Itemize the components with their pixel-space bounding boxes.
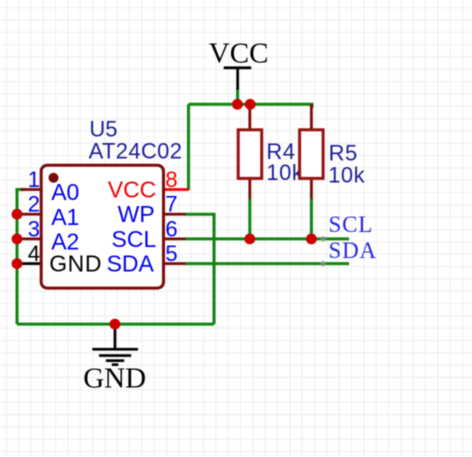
chip body	[41, 165, 163, 288]
R5 body	[300, 130, 324, 179]
pin 5 stub	[163, 262, 186, 265]
wire: SDA horizontal	[185, 262, 349, 265]
wire: R5 bottom green lead	[310, 199, 313, 239]
svg-text:AT24C02: AT24C02	[89, 138, 183, 163]
power port VCC	[209, 37, 269, 89]
wire: SCL horizontal	[185, 237, 349, 240]
R4 top lead	[248, 104, 251, 131]
svg-text:GND: GND	[49, 250, 102, 276]
wire: R4 bottom green lead	[248, 199, 251, 239]
svg-text:VCC: VCC	[209, 37, 269, 69]
svg-text:3: 3	[28, 216, 40, 241]
wire: VCC top rail horizontal	[189, 103, 313, 106]
wire: left vertical bus from pin1 down to GND rail	[16, 190, 19, 325]
R4 body	[238, 130, 262, 179]
svg-text:1: 1	[28, 167, 40, 192]
svg-text:WP: WP	[118, 201, 155, 227]
svg-text:10k: 10k	[328, 163, 365, 188]
wire: bottom horizontal GND rail	[17, 323, 214, 326]
pin 4 stub (black GND pin)	[16, 262, 44, 265]
svg-text:A1: A1	[51, 204, 79, 230]
svg-text:A0: A0	[51, 179, 79, 205]
wire: stub from bus to pin 1	[16, 188, 26, 191]
svg-text:VCC: VCC	[108, 177, 157, 203]
net label SDA	[320, 238, 377, 266]
R4 bottom lead	[248, 177, 251, 199]
junction dot at VCC stem	[232, 99, 243, 110]
pin 1 indicator dot	[49, 173, 59, 183]
svg-text:4: 4	[28, 241, 40, 266]
svg-text:SDA: SDA	[329, 238, 377, 263]
junction dot R5 bottom on SCL	[306, 234, 317, 245]
wire: green part of VCC stem	[236, 88, 239, 106]
wire: drop from VCC rail to pin 8	[187, 104, 190, 190]
resistor R4	[238, 104, 304, 199]
svg-text:7: 7	[165, 192, 177, 217]
pin 3 stub	[16, 238, 44, 241]
svg-text:SCL: SCL	[329, 212, 374, 237]
wire: WP pin7 to GND rail	[185, 214, 214, 324]
junction dot at R4 top	[245, 99, 256, 110]
pin 6 stub	[163, 238, 186, 241]
R5 bottom lead	[310, 177, 313, 199]
junction dot GND tap	[110, 319, 121, 330]
pin 8 stub (red)	[163, 188, 189, 191]
wire: R5 top corner green	[311, 103, 314, 108]
junction dot pin3	[12, 234, 23, 245]
ground symbol GND	[83, 327, 146, 395]
junction dot R4 bottom on SCL	[244, 234, 255, 245]
junction dot pin4	[12, 258, 23, 269]
net label SCL	[320, 212, 373, 242]
svg-text:SCL: SCL	[112, 226, 157, 252]
R5 top lead	[310, 104, 313, 131]
svg-text:2: 2	[28, 192, 40, 217]
svg-text:5: 5	[165, 241, 177, 266]
resistor R5	[300, 104, 366, 199]
pin 7 stub	[163, 213, 186, 216]
svg-text:8: 8	[165, 167, 177, 192]
pin 1 stub	[21, 188, 43, 191]
junction dot pin2	[12, 209, 23, 220]
IC U5 AT24C02	[16, 116, 189, 288]
svg-text:GND: GND	[83, 363, 146, 395]
svg-text:SDA: SDA	[107, 251, 155, 277]
svg-text:6: 6	[165, 216, 177, 241]
pin 2 stub	[16, 213, 44, 216]
